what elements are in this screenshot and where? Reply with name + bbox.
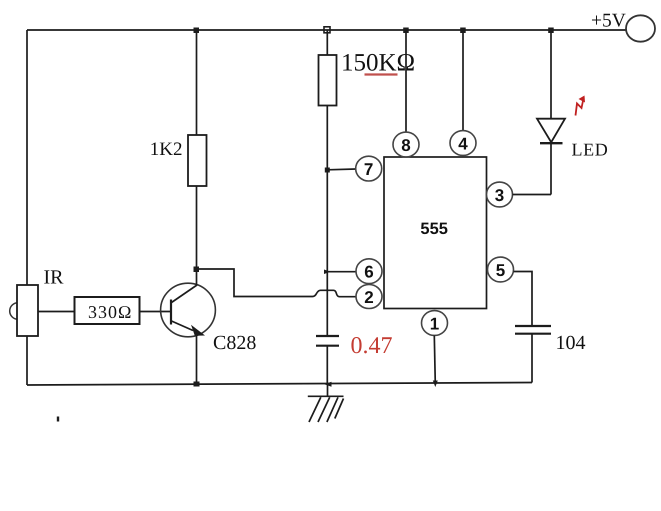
wire collector up to node: [196, 269, 198, 285]
junction pin6 tap (arrow): [324, 270, 331, 275]
transistor Q1 C828 circle: [161, 283, 216, 337]
junction top rail / pin 4: [460, 28, 466, 34]
wire 150K down to 0.47 cap: [326, 106, 328, 337]
transistor collector stroke: [172, 285, 198, 303]
wire IR to 330 resistor: [38, 311, 74, 313]
pin 5: [488, 257, 514, 282]
wire hump over vertical then to pin 2: [308, 290, 357, 296]
wire LED to pin 3 wire: [550, 143, 552, 194]
capacitor C1 0.47 top plate: [316, 335, 339, 337]
junction emitter/bottom-rail: [194, 382, 200, 387]
stray mark 1: [57, 417, 59, 422]
wire 1K2 branch from top rail: [196, 30, 198, 135]
svg-text:2: 2: [364, 288, 373, 307]
wire left vertical (IR to bottom rail): [26, 336, 28, 385]
svg-text:5: 5: [496, 261, 505, 280]
junction top rail / 150K: [324, 27, 330, 33]
IR sensor body: [10, 303, 27, 320]
capacitor C1 0.47 bottom plate: [316, 345, 339, 347]
LED cathode bar: [540, 142, 563, 144]
pin 3: [487, 182, 513, 207]
LED D1 triangle: [537, 119, 565, 143]
junction pin1 / bottom rail: [433, 381, 438, 388]
wire top +5V rail: [27, 29, 627, 31]
svg-text:104: 104: [556, 332, 586, 354]
svg-text:6: 6: [364, 263, 373, 282]
red light arrow near LED: [576, 99, 584, 116]
capacitor C2 104 bottom plate: [515, 333, 551, 335]
svg-text:7: 7: [364, 160, 373, 179]
ground stub: [327, 384, 329, 396]
svg-text:3: 3: [495, 186, 504, 205]
wire 104 cap to bottom rail: [531, 334, 533, 383]
transistor base bar: [170, 300, 172, 325]
svg-text:8: 8: [401, 136, 410, 155]
ground hatch 2: [318, 397, 330, 422]
transistor emitter arrowhead: [191, 325, 205, 336]
wire to pin 7: [327, 168, 356, 171]
wire 150K branch from top rail: [326, 30, 328, 55]
ground hatch 4: [335, 399, 344, 419]
ground bar: [308, 395, 344, 397]
IC U1 555 body: [384, 157, 487, 309]
svg-text:+5V: +5V: [591, 11, 626, 32]
wire left vertical (top rail to IR): [26, 30, 28, 285]
svg-text:330Ω: 330Ω: [88, 302, 132, 322]
pin 4: [450, 131, 476, 156]
resistor 330 ohm: [75, 297, 140, 324]
wire 0.47 cap to bottom rail: [326, 346, 328, 384]
junction collector node: [194, 267, 200, 273]
transistor emitter stroke: [172, 321, 194, 331]
junction ground tap: [324, 382, 331, 387]
junction top rail / pin 8: [403, 28, 409, 34]
junction pin7 tap: [325, 168, 330, 173]
wire to pin 6: [327, 271, 356, 273]
svg-text:0.47: 0.47: [351, 333, 393, 359]
svg-text:LED: LED: [572, 140, 609, 160]
wire pin 3 to LED branch: [513, 194, 552, 196]
pin 8: [393, 132, 419, 157]
+5V terminal circle: [626, 15, 655, 41]
svg-text:4: 4: [458, 135, 468, 154]
svg-text:555: 555: [420, 220, 448, 238]
svg-text:IR: IR: [44, 267, 65, 289]
pin 6: [356, 259, 382, 284]
pin 7: [356, 156, 382, 181]
junction top rail / LED: [548, 28, 554, 34]
wire pin 8 to top rail: [405, 30, 407, 132]
wire emitter down to bottom rail: [196, 332, 198, 385]
wire 1K2 bottom to collector node: [196, 186, 198, 269]
wire collector node to pin2 (step): [197, 269, 309, 297]
ground hatch 1: [309, 397, 321, 422]
capacitor C2 104 top plate: [515, 325, 551, 327]
pin 2: [356, 285, 382, 309]
wire LED branch from top rail: [550, 30, 552, 119]
wire 330 resistor to transistor base: [140, 311, 172, 313]
junction top rail / 1K2: [194, 28, 200, 34]
svg-text:C828: C828: [213, 332, 256, 354]
pin 1: [422, 311, 448, 336]
svg-text:150KΩ: 150KΩ: [341, 50, 415, 77]
wire pin 5 right: [514, 272, 533, 327]
red underline under 150K label: [365, 73, 398, 75]
svg-text:1K2: 1K2: [150, 139, 183, 160]
wire pin 4 to top rail: [462, 30, 464, 131]
resistor R1 1K2: [188, 135, 207, 186]
svg-text:1: 1: [430, 315, 439, 334]
wire bottom ground rail: [27, 383, 532, 386]
ground hatch 3: [327, 397, 338, 422]
resistor R2 150K: [319, 55, 337, 106]
wire pin 1 to bottom rail: [434, 336, 435, 385]
